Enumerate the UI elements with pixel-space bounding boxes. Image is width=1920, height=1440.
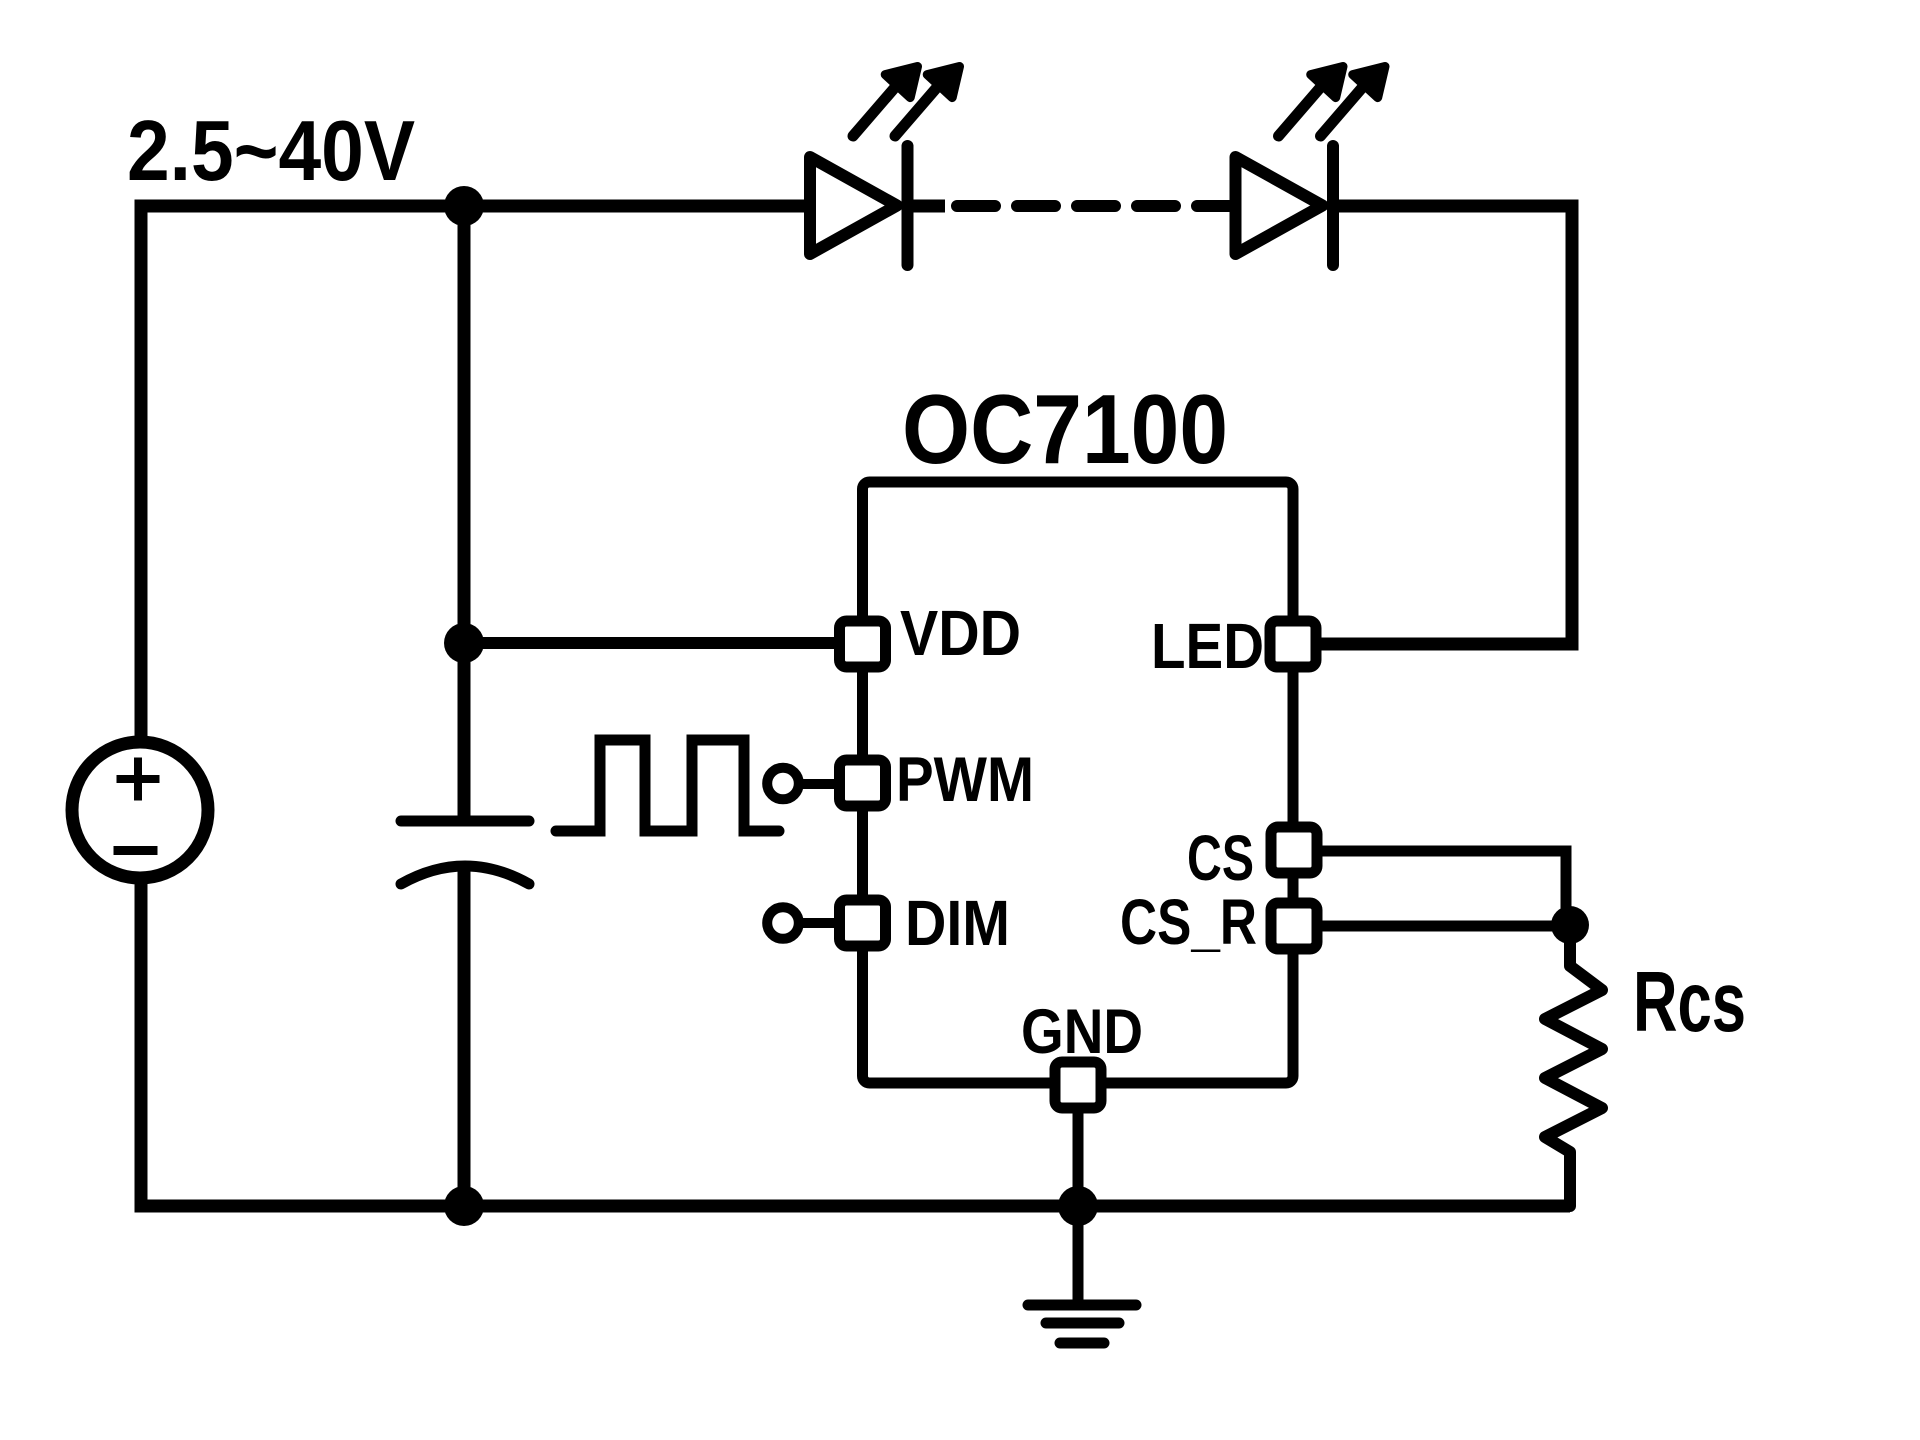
wire: left rail below source down and bottom rail to resistor bbox=[141, 884, 1570, 1206]
C1 curved plate bbox=[401, 866, 529, 884]
IC U1 OC7100 box bbox=[863, 482, 1294, 1083]
PWM waveform bbox=[556, 740, 779, 831]
pin PWM square bbox=[840, 760, 886, 806]
wire: solid segment after LED1 cathode bbox=[908, 200, 945, 213]
svg-text:PWM: PWM bbox=[896, 745, 1034, 815]
V1 minus sign bbox=[114, 846, 158, 855]
wire: bottom rail junction down to earth symbol bbox=[1073, 1206, 1084, 1305]
pin CS_R square bbox=[1271, 903, 1317, 949]
ground bbox=[1028, 1305, 1136, 1343]
D2 anode triangle bbox=[1236, 157, 1323, 254]
wire: DIM terminal to pin bbox=[798, 918, 840, 928]
svg-text:Rcs: Rcs bbox=[1633, 955, 1746, 1050]
wire: PWM terminal to pin bbox=[798, 779, 840, 789]
V1 plus sign bbox=[117, 758, 160, 801]
pin LED square bbox=[1270, 621, 1316, 667]
pin CS square bbox=[1271, 827, 1317, 873]
DIM input terminal circle bbox=[767, 907, 799, 939]
junction node: top rail / cap branch bbox=[444, 186, 484, 226]
svg-text:VDD: VDD bbox=[900, 597, 1021, 669]
junction node: VDD wire / cap branch bbox=[444, 623, 484, 663]
wire: capacitor bottom lead to bottom rail bbox=[458, 866, 471, 1206]
D1 anode triangle bbox=[810, 157, 897, 254]
svg-text:DIM: DIM bbox=[905, 887, 1010, 959]
wire: VDD pin wire from branch to VDD square bbox=[464, 637, 840, 649]
wire: GND pin down to bottom rail bbox=[1073, 1110, 1084, 1206]
PWM input terminal circle bbox=[767, 768, 799, 800]
capacitor C1 bbox=[401, 816, 529, 827]
wire: vertical branch from top rail to capacitor top plate bbox=[458, 200, 471, 818]
junction node: cap branch / bottom rail bbox=[444, 1186, 484, 1226]
D1 cathode bar bbox=[902, 146, 914, 265]
svg-text:GND: GND bbox=[1021, 997, 1143, 1067]
wire: CS pin to resistor top node bbox=[1321, 851, 1566, 920]
pin VDD square bbox=[840, 621, 886, 667]
junction node: CS_R / resistor top bbox=[1551, 906, 1589, 944]
wire: CS_R pin to resistor top node bbox=[1321, 921, 1570, 932]
voltage source V1 bbox=[72, 742, 208, 878]
D1 emission arrow 1 bbox=[853, 85, 897, 136]
D2 emission arrow 1 bbox=[1279, 85, 1323, 136]
wire: top rail from source to LED1 anode with left corner down to source bbox=[141, 206, 810, 736]
svg-text:CS: CS bbox=[1187, 822, 1254, 894]
svg-text:LED: LED bbox=[1151, 610, 1264, 682]
D1 emission arrow 2 bbox=[895, 85, 939, 136]
svg-text:OC7100: OC7100 bbox=[902, 374, 1228, 484]
D2 cathode bar bbox=[1327, 146, 1339, 265]
pin GND square bbox=[1055, 1062, 1101, 1108]
svg-text:CS_R: CS_R bbox=[1120, 886, 1257, 958]
wire: dashed LED string continuation bbox=[957, 200, 1235, 212]
junction node: GND / bottom rail bbox=[1058, 1186, 1098, 1226]
pin DIM square bbox=[840, 900, 886, 946]
resistor Rcs bbox=[1545, 925, 1602, 1206]
LED D2 bbox=[1236, 67, 1386, 266]
LED D1 bbox=[810, 67, 960, 266]
wire: LED2 cathode to right rail, down, into LED pin bbox=[1321, 206, 1572, 644]
svg-text:2.5~40V: 2.5~40V bbox=[127, 104, 415, 199]
D2 emission arrow 2 bbox=[1321, 85, 1365, 136]
